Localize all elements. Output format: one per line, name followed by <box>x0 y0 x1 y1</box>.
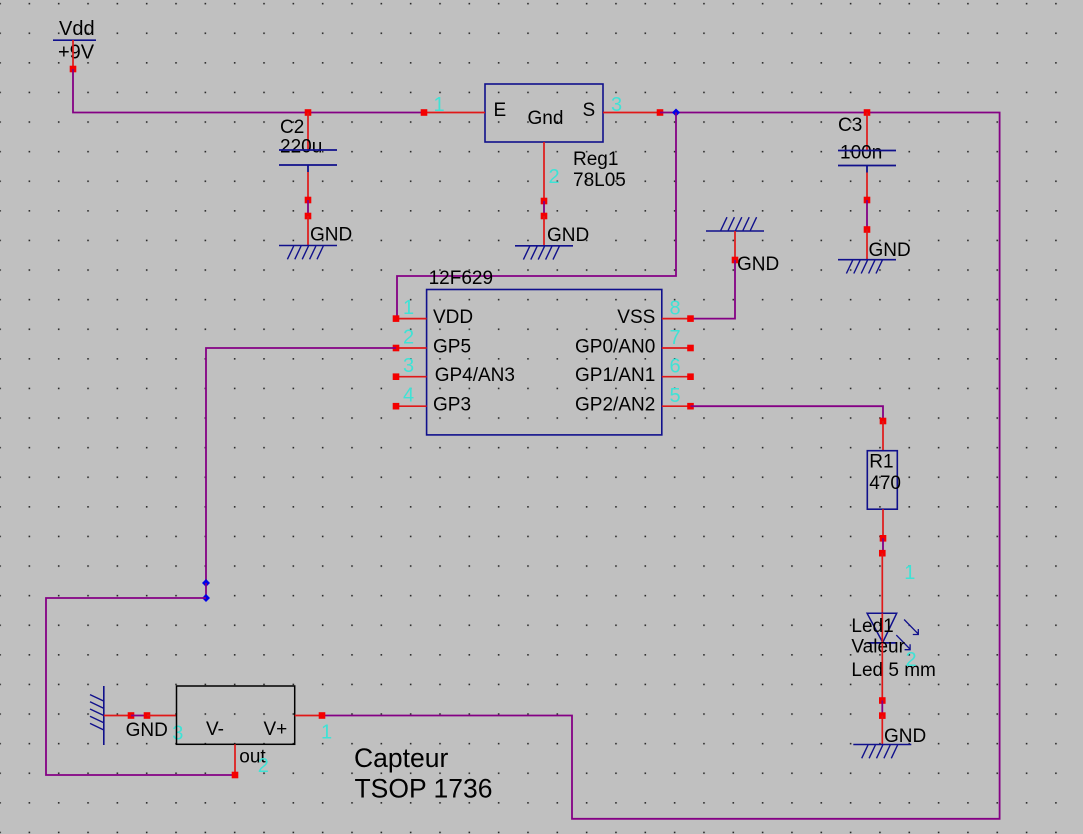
IC pin 8 number <box>670 298 681 320</box>
IC label 12F629 <box>429 268 493 289</box>
resistor R1 body <box>867 451 897 510</box>
IC pin 5 stub <box>662 405 691 407</box>
svg-text:3: 3 <box>172 723 183 745</box>
wire junction B to sensor out pin <box>46 598 232 775</box>
wire ground to sensor V- <box>131 715 147 717</box>
svg-text:E: E <box>494 100 507 121</box>
svg-text:VSS: VSS <box>617 307 655 328</box>
IC pin 2 node <box>393 345 400 352</box>
IC pin 5 node <box>687 403 694 410</box>
svg-text:C2: C2 <box>280 117 304 138</box>
svg-text:Led1: Led1 <box>851 616 893 637</box>
ground symbol GND below Led1 <box>853 726 926 758</box>
svg-text:7: 7 <box>670 327 681 349</box>
ground pin node below C2 <box>305 213 312 220</box>
wire GP2/AN2 to resistor R1 <box>691 406 884 421</box>
Led1 pin 1 node <box>879 550 886 557</box>
svg-text:V+: V+ <box>264 719 288 740</box>
regulator pin 2 number <box>549 166 560 188</box>
IC pin 5 number <box>670 385 681 407</box>
regulator pin 1 E stub <box>424 112 485 114</box>
ground stub left of sensor <box>104 715 131 717</box>
regulator pin 3 number <box>611 94 622 116</box>
svg-text:12F629: 12F629 <box>429 268 493 289</box>
diode Led1 symbol <box>867 613 919 649</box>
svg-text:78L05: 78L05 <box>573 170 626 191</box>
svg-text:GND: GND <box>884 726 926 747</box>
wire Led1 to ground <box>881 701 883 716</box>
svg-text:4: 4 <box>403 385 414 407</box>
svg-text:GND: GND <box>310 225 352 246</box>
svg-text:5: 5 <box>670 385 681 407</box>
regulator pin 3 node <box>657 109 664 116</box>
ground pin node below C3 <box>864 226 871 233</box>
regulator pin 3 S stub <box>603 112 660 114</box>
svg-text:GND: GND <box>869 240 911 261</box>
svg-text:1: 1 <box>321 722 332 744</box>
resistor R1 pin 1 node <box>880 418 887 425</box>
svg-text:C3: C3 <box>838 115 862 136</box>
sensor pin 3 number <box>172 723 183 745</box>
svg-text:GND: GND <box>126 720 168 741</box>
ground pin node at VSS ground <box>732 257 739 264</box>
svg-text:GND: GND <box>737 254 779 275</box>
capacitor C2 plates <box>279 150 337 172</box>
capacitor C3 pin 2 node <box>864 197 871 204</box>
wire VSS to ground <box>691 260 736 319</box>
svg-text:Vdd: Vdd <box>59 18 95 40</box>
capacitor C2 tap node <box>305 109 312 116</box>
regulator pin 1 number <box>434 94 445 116</box>
capacitor C2 labels C2 220u <box>280 117 322 158</box>
IC pin 7 number <box>670 327 681 349</box>
svg-text:S: S <box>583 100 596 121</box>
ground stub below C3 <box>866 230 868 260</box>
resistor R1 pin 2 stub <box>882 509 884 538</box>
sensor U2 TSOP body <box>177 686 295 744</box>
junction node at regulator output <box>672 109 680 117</box>
Led1 pin 2 stub <box>881 643 883 701</box>
IC pin 6 node <box>687 373 694 380</box>
svg-text:3: 3 <box>403 355 414 377</box>
ground stub below C2 <box>307 216 309 246</box>
ground symbol GND at 12F629 VSS (inverted) <box>706 217 779 275</box>
IC pin 1 stub <box>396 318 427 320</box>
svg-text:GP4/AN3: GP4/AN3 <box>435 365 515 386</box>
sensor pin 2 number <box>258 755 269 777</box>
wire R1 to Led1 <box>882 538 884 553</box>
sensor labels Capteur TSOP 1736 <box>354 743 493 804</box>
regulator pin 2 Gnd stub <box>543 142 545 201</box>
power flag Vdd +9V <box>53 18 96 64</box>
svg-text:GND: GND <box>547 225 589 246</box>
IC pin 7 node <box>687 345 694 352</box>
sensor pin 1 number <box>321 722 332 744</box>
resistor R1 labels R1 470 <box>869 452 901 495</box>
resistor R1 pin 1 stub <box>882 421 884 451</box>
IC pin 1 number <box>403 297 414 319</box>
svg-text:Gnd: Gnd <box>528 108 564 129</box>
svg-text:220u: 220u <box>280 137 322 158</box>
ground symbol GND below regulator <box>515 225 589 260</box>
capacitor C3 plates <box>838 151 896 173</box>
svg-text:470: 470 <box>869 473 901 494</box>
IC pin 6 stub <box>662 376 691 378</box>
svg-text:TSOP 1736: TSOP 1736 <box>355 774 493 804</box>
IC pin 6 number <box>670 356 681 378</box>
IC U1 12F629 body <box>427 290 662 435</box>
svg-text:Valeur: Valeur <box>851 637 905 658</box>
wire +5V: regulator S to junction <box>660 112 676 114</box>
IC pin 3 stub <box>396 376 427 378</box>
svg-text:100n: 100n <box>840 143 882 164</box>
regulator pin 2 node <box>541 198 548 205</box>
svg-text:GP0/AN0: GP0/AN0 <box>575 336 655 357</box>
svg-text:GP2/AN2: GP2/AN2 <box>575 394 655 415</box>
svg-text:2: 2 <box>906 649 917 671</box>
capacitor C2 pin 2 node <box>305 197 312 204</box>
Led1 pin 1 stub <box>881 553 883 613</box>
ground stub below regulator <box>543 216 545 246</box>
svg-text:GP3: GP3 <box>433 394 471 415</box>
svg-text:3: 3 <box>611 94 622 116</box>
svg-text:2: 2 <box>549 166 560 188</box>
sensor pin 1 stub <box>295 715 322 717</box>
Led1 labels Led1 Valeur Led 5 mm <box>851 616 935 681</box>
svg-text:1: 1 <box>904 562 915 584</box>
Led1 pin 2 number <box>906 649 917 671</box>
regulator U Reg1 78L05 body <box>485 84 603 142</box>
IC pin 1 node <box>393 315 400 322</box>
wire between junctions <box>205 583 207 598</box>
IC pin 8 stub <box>662 318 691 320</box>
sensor pin 2 out node <box>232 772 239 779</box>
junction node A on GP5 net <box>202 579 210 587</box>
regulator labels Reg1 78L05 <box>573 149 626 191</box>
ground symbol GND left of sensor (rotated) <box>90 686 168 745</box>
sensor pin 2 out stub <box>234 744 236 775</box>
svg-text:V-: V- <box>206 719 224 740</box>
Led1 pin 2 node <box>879 697 886 704</box>
svg-text:GP5: GP5 <box>433 336 471 357</box>
capacitor C3 labels C3 100n <box>838 115 882 164</box>
capacitor C3 pin 1 stub <box>866 113 868 151</box>
wire GP5 to sensor out <box>206 348 396 583</box>
svg-text:+9V: +9V <box>58 42 95 64</box>
ground symbol GND below C3 <box>838 240 911 274</box>
wire +9V: Vdd to regulator E input <box>73 69 424 113</box>
IC pin 3 number <box>403 355 414 377</box>
svg-text:8: 8 <box>670 298 681 320</box>
Led1 pin 1 number <box>904 562 915 584</box>
ground symbol GND below C2 <box>279 225 352 260</box>
ground pin node below regulator <box>541 213 548 220</box>
svg-text:R1: R1 <box>869 452 893 473</box>
capacitor C3 tap node <box>864 109 871 116</box>
wire C3 to ground <box>866 200 868 230</box>
Vdd pin node <box>70 66 77 73</box>
svg-text:6: 6 <box>670 356 681 378</box>
wire +5V rail to right edge and around to sensor V+ <box>323 113 1000 819</box>
ground stub below Led1 <box>881 716 883 745</box>
capacitor C2 pin 2 stub <box>307 172 309 200</box>
sensor out label <box>239 747 266 768</box>
Vdd pin stub <box>72 40 74 69</box>
IC pin 7 stub <box>662 347 691 349</box>
svg-text:1: 1 <box>403 297 414 319</box>
resistor R1 pin 2 node <box>880 535 887 542</box>
wire regulator Gnd to ground <box>543 201 545 216</box>
capacitor C3 pin 2 stub <box>866 173 868 201</box>
IC pin 4 stub <box>396 405 427 407</box>
IC pin 2 number <box>403 327 414 349</box>
svg-text:GP1/AN1: GP1/AN1 <box>575 365 655 386</box>
capacitor C2 pin 1 stub <box>307 113 309 151</box>
wire +5V branch to 12F629 VDD <box>397 113 676 319</box>
sensor pin 3 stub <box>147 715 177 717</box>
IC pin 8 node <box>687 315 694 322</box>
IC pin 3 node <box>393 373 400 380</box>
IC pin 4 number <box>403 385 414 407</box>
svg-text:VDD: VDD <box>433 307 473 328</box>
svg-text:Reg1: Reg1 <box>573 149 618 170</box>
regulator pin 1 node <box>421 109 428 116</box>
svg-text:Capteur: Capteur <box>354 743 448 773</box>
sensor pin 1 node <box>319 712 326 719</box>
IC pin 4 node <box>393 403 400 410</box>
ground pin node below Led1 <box>879 712 886 719</box>
sensor pin 3 node <box>144 712 151 719</box>
ground pin node left of sensor <box>128 712 135 719</box>
svg-text:Led 5 mm: Led 5 mm <box>851 660 935 681</box>
svg-text:1: 1 <box>434 94 445 116</box>
ground stub at VSS ground <box>734 231 736 260</box>
IC pin 2 stub <box>396 347 427 349</box>
wire C2 to ground <box>307 200 309 216</box>
svg-text:2: 2 <box>403 327 414 349</box>
svg-text:2: 2 <box>258 755 269 777</box>
junction node B on GP5 net <box>202 594 210 602</box>
